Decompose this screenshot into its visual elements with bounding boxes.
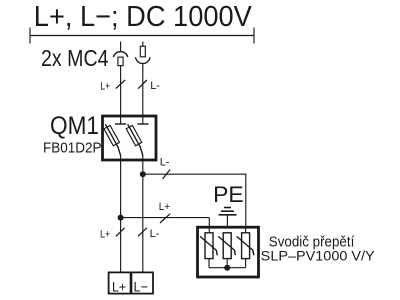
varistor 2 bottom lead [226, 259, 228, 268]
ground symbol bar 2 [221, 210, 234, 212]
wire [142, 64, 144, 116]
bus line [30, 35, 254, 37]
fuse 2 top contact [137, 123, 148, 125]
bus tick right [253, 28, 255, 44]
common bottom bar [209, 267, 246, 269]
wire L- tap vertical [245, 174, 247, 228]
fuse 1 blade [105, 124, 120, 155]
wire L+ tap horizontal [121, 217, 210, 219]
ground symbol bar 3 [219, 214, 237, 216]
junction common [224, 265, 230, 271]
svg-text:L-: L- [150, 228, 160, 240]
svg-text:SLP–PV1000 V/Y: SLP–PV1000 V/Y [261, 249, 376, 265]
terminal block L- [131, 272, 153, 293]
varistor 1 lead [208, 226, 210, 233]
wire [120, 66, 122, 116]
svg-text:L+, L−; DC 1000V: L+, L−; DC 1000V [34, 1, 253, 33]
junction L+ [118, 215, 124, 221]
varistor 3 lead [245, 226, 247, 233]
wire L+ drop from bus [120, 42, 122, 52]
wire L+ from QM1 down to terminal [120, 155, 122, 272]
fuse 2 body [126, 125, 142, 145]
varistor 2 stroke [218, 236, 235, 255]
fuse-switch QM1 box [103, 116, 157, 160]
wire L+ tap vertical [208, 218, 210, 229]
varistor 3 bottom lead [245, 259, 247, 268]
svg-text:QM1: QM1 [50, 112, 99, 140]
surge protector box [198, 227, 259, 277]
svg-text:L-: L- [150, 80, 160, 92]
breaker slash L+ [116, 80, 125, 89]
ground stem wire [226, 215, 228, 233]
breaker slash L+ tap [160, 214, 170, 223]
wire L- from QM1 down to terminal [142, 155, 144, 272]
wire L- tap horizontal [143, 173, 247, 175]
junction L- [140, 171, 146, 177]
fuse 1 top contact [115, 123, 126, 125]
svg-text:L+: L+ [112, 279, 126, 295]
varistor 1 bottom lead [208, 259, 210, 268]
breaker slash L- [138, 80, 147, 89]
breaker slash L+ lower [116, 228, 125, 237]
svg-text:L-: L- [160, 157, 170, 169]
wire L- drop from bus [142, 42, 144, 47]
ground symbol bar 1 [224, 207, 231, 209]
svg-text:2x MC4: 2x MC4 [41, 45, 109, 71]
svg-text:PE: PE [213, 182, 244, 207]
connector MC4 left pin [118, 57, 123, 66]
varistor 1 body [205, 233, 213, 259]
wire into box left [120, 116, 122, 124]
breaker slash L- tap [163, 170, 171, 179]
connector MC4 right socket arc [136, 57, 151, 63]
svg-text:L−: L− [134, 279, 149, 295]
svg-text:L+: L+ [159, 201, 170, 213]
connector MC4 left socket arc [113, 52, 127, 57]
varistor 3 body [242, 233, 250, 259]
terminal block L+ [109, 272, 131, 293]
svg-text:L+: L+ [100, 80, 110, 92]
breaker slash L- lower [138, 228, 147, 237]
varistor 1 stroke [200, 236, 217, 255]
fuse 1 body [104, 125, 120, 145]
fuse 2 blade [128, 124, 143, 155]
svg-text:L+: L+ [100, 229, 110, 241]
varistor 3 stroke [237, 236, 254, 255]
varistor 2 body [223, 233, 231, 259]
bus tick left [29, 28, 31, 44]
connector MC4 right pin [140, 46, 145, 57]
wire into box right [142, 116, 144, 124]
svg-text:FB01D2P: FB01D2P [43, 141, 102, 157]
